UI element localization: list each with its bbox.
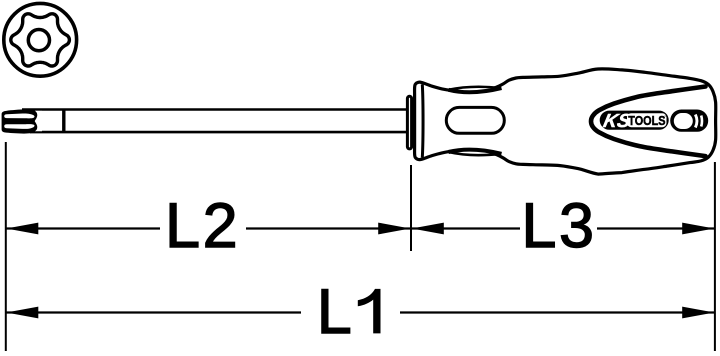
svg-text:®: ® <box>665 113 668 118</box>
torx bit face view: star profile <box>11 14 70 66</box>
bottom waist inlay upper arc <box>449 150 502 154</box>
torx tip: upper flute slot <box>4 113 34 118</box>
bell/grip boundary line <box>421 84 425 157</box>
L2 right arrowhead <box>378 223 410 235</box>
L3 dimension line left segment <box>412 227 520 229</box>
emblem arc 1 <box>695 115 697 128</box>
handle front hang hole <box>446 107 504 133</box>
L2 dimension line left segment <box>7 227 161 229</box>
L1 dimension line left segment <box>7 311 302 313</box>
torx tip: shaft-interior V notch <box>35 111 42 131</box>
handle outer outline <box>415 69 716 174</box>
right extension line <box>714 162 716 351</box>
emblem arc 2 <box>700 116 703 127</box>
L1 right arrowhead <box>682 307 714 319</box>
shaft bottom line <box>30 131 409 134</box>
torx bit face view: outer circle <box>4 3 77 76</box>
left extension line <box>5 142 7 351</box>
svg-text:L: L <box>317 277 352 347</box>
L2 dimension line right segment <box>246 227 410 229</box>
L3 left arrowhead <box>412 223 444 235</box>
torx bit face view: center pin hole <box>28 29 49 50</box>
top waist inlay upper arc <box>449 87 502 90</box>
torx tip silhouette <box>2 109 39 134</box>
tip/shaft boundary line <box>62 109 65 133</box>
bottom waist inlay lens <box>449 150 502 155</box>
grip funnel contour <box>591 87 706 157</box>
L2 left arrowhead <box>6 223 38 235</box>
top waist inlay lens <box>449 87 502 92</box>
L1 label digit 1 (custom glyph) <box>358 289 381 334</box>
L3 dimension line right segment <box>597 227 714 229</box>
L3 right arrowhead <box>682 223 714 235</box>
svg-text:L2: L2 <box>165 191 240 261</box>
svg-text:TOOLS: TOOLS <box>628 113 665 128</box>
torx tip: lower flute slot <box>4 124 34 129</box>
KS TOOLS logo: white TOOLS box <box>627 113 667 127</box>
KS TOOLS logo pill <box>600 111 669 130</box>
emblem pill <box>670 110 708 132</box>
L1 left arrowhead <box>6 307 38 319</box>
bottom waist inlay lower arc <box>449 152 502 155</box>
svg-text:L3: L3 <box>521 191 596 261</box>
shaft top line <box>22 108 409 111</box>
L1 dimension line right segment <box>400 311 714 313</box>
emblem white dot <box>674 113 693 129</box>
handle ferrule collar <box>407 96 411 149</box>
top waist inlay lower arc <box>449 88 502 92</box>
middle extension line <box>410 165 412 251</box>
